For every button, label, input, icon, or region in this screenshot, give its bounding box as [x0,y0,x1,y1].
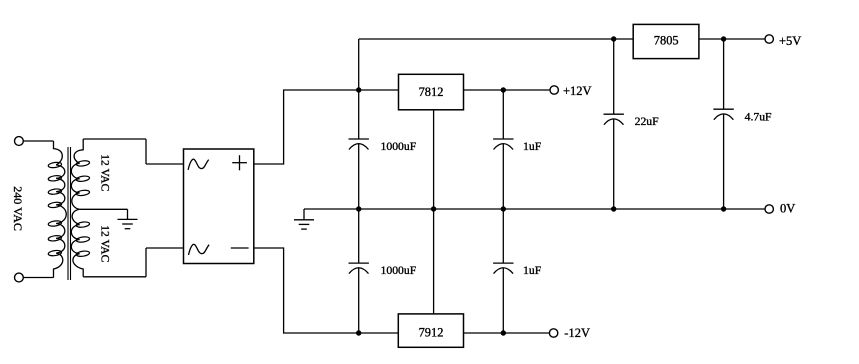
svg-text:12 VAC: 12 VAC [99,225,111,262]
svg-text:0V: 0V [780,202,795,216]
svg-text:7812: 7812 [419,85,444,99]
svg-text:7912: 7912 [419,325,444,339]
svg-text:+12V: +12V [563,84,592,98]
svg-text:1000uF: 1000uF [381,140,417,153]
svg-text:7805: 7805 [654,34,679,48]
svg-text:1uF: 1uF [523,140,542,153]
svg-text:-12V: -12V [564,326,590,340]
svg-text:22uF: 22uF [635,115,660,128]
svg-text:4.7uF: 4.7uF [745,111,772,124]
svg-text:12 VAC: 12 VAC [99,154,111,191]
svg-text:1000uF: 1000uF [381,264,417,277]
svg-text:+5V: +5V [779,34,801,48]
svg-text:1uF: 1uF [523,264,542,277]
svg-text:240 VAC: 240 VAC [11,186,25,231]
